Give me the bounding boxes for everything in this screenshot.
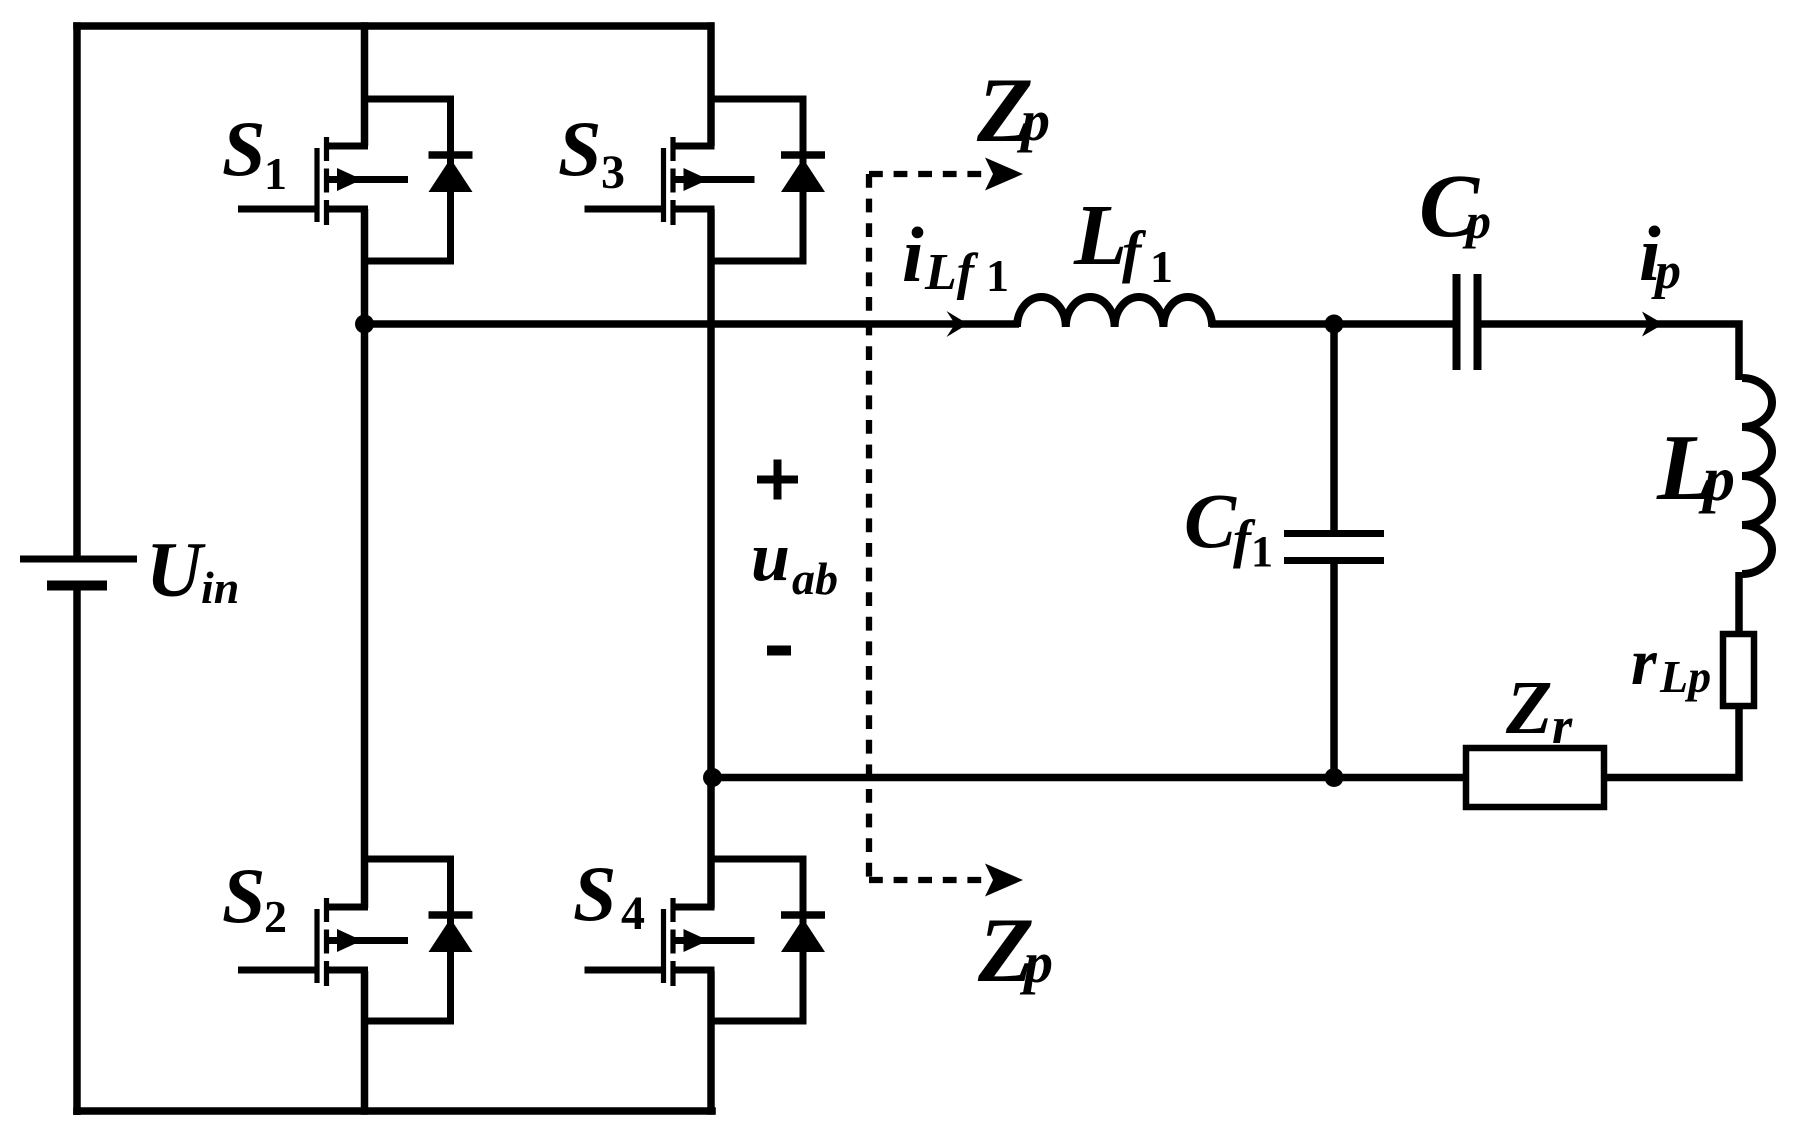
svg-text:U: U: [146, 526, 206, 613]
wire top rail: [73, 22, 714, 30]
wire rail a right segment: [1481, 324, 1739, 380]
svg-text:p: p: [1651, 243, 1681, 300]
wire leg2 middle segment: [707, 209, 715, 908]
svg-text:u: u: [751, 519, 790, 596]
wire rLp to rail b: [1604, 706, 1739, 778]
diode D1: [365, 99, 473, 261]
diode D4: [711, 859, 825, 1021]
arrow iLf1: [947, 311, 969, 337]
inductor Lf1: [1017, 297, 1212, 327]
svg-text:3: 3: [601, 146, 625, 199]
transistor S4: [585, 898, 755, 986]
wire leg1 middle segment: [361, 209, 369, 908]
impedance box Zr: [1466, 748, 1604, 807]
wire rail a left segment: [365, 320, 1020, 328]
dashed measurement line Zp vertical: [866, 174, 872, 880]
svg-text:S: S: [558, 105, 601, 192]
wire rail b: [711, 774, 1466, 782]
svg-text:4: 4: [621, 887, 645, 940]
arrow ip: [1642, 312, 1664, 337]
capacitor Cp: [1457, 274, 1478, 370]
resistor rLp: [1723, 634, 1754, 706]
transistor S3: [585, 137, 755, 225]
svg-text:S: S: [573, 850, 616, 937]
battery Uin long plate: [20, 556, 137, 563]
svg-text:Z: Z: [1505, 666, 1552, 750]
wire leg1 drain segment: [361, 22, 369, 146]
label uab plus sign: [757, 460, 798, 500]
svg-text:p: p: [1462, 193, 1491, 249]
node a junction dot: [355, 315, 374, 334]
wire Lp to rLp: [1735, 572, 1743, 634]
wire left vertical lower: [73, 586, 81, 1115]
svg-text:2: 2: [264, 891, 287, 942]
svg-text:L: L: [1073, 186, 1127, 283]
svg-text:1: 1: [986, 250, 1009, 301]
label uab minus sign: [767, 646, 791, 656]
svg-text:1: 1: [1251, 527, 1273, 576]
node Cf1 bottom junction dot: [1325, 768, 1344, 787]
diode D2: [365, 859, 473, 1021]
svg-text:C: C: [1184, 477, 1237, 564]
transistor S1: [238, 137, 408, 225]
wire leg2 source segment: [707, 971, 715, 1115]
diode D3: [711, 99, 825, 261]
svg-text:S: S: [222, 105, 265, 192]
wire leg1 source segment: [361, 971, 369, 1115]
svg-text:r: r: [1552, 698, 1573, 755]
dashed arrow Zp top: [869, 171, 990, 177]
svg-text:r: r: [1631, 626, 1658, 699]
battery Uin short plate: [47, 581, 107, 591]
svg-text:p: p: [1019, 930, 1053, 995]
inductor Lp: [1742, 378, 1772, 574]
svg-text:1: 1: [264, 148, 287, 199]
wire bottom rail: [73, 1107, 716, 1115]
wire leg2 drain segment: [707, 22, 715, 146]
svg-text:1: 1: [1150, 241, 1173, 292]
node Cf1 top junction dot: [1325, 315, 1344, 334]
svg-text:i: i: [902, 211, 924, 298]
dashed arrow Zp bottom: [869, 877, 990, 883]
svg-text:S: S: [222, 852, 265, 939]
svg-text:ab: ab: [792, 553, 838, 604]
transistor S2: [238, 898, 408, 986]
wire rail a middle segment: [1210, 320, 1453, 328]
svg-text:in: in: [201, 562, 239, 613]
svg-text:Lf: Lf: [924, 244, 979, 301]
svg-text:Lp: Lp: [1659, 651, 1711, 702]
svg-text:p: p: [1016, 88, 1050, 153]
wire left vertical upper: [73, 22, 81, 556]
node b junction dot: [703, 768, 722, 787]
svg-text:p: p: [1698, 443, 1735, 514]
capacitor Cf1: [1284, 324, 1384, 778]
